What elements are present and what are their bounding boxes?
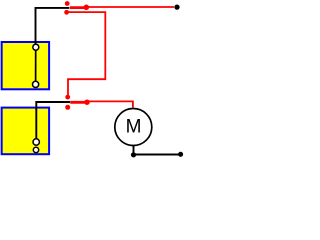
- svg-text:M: M: [126, 116, 142, 137]
